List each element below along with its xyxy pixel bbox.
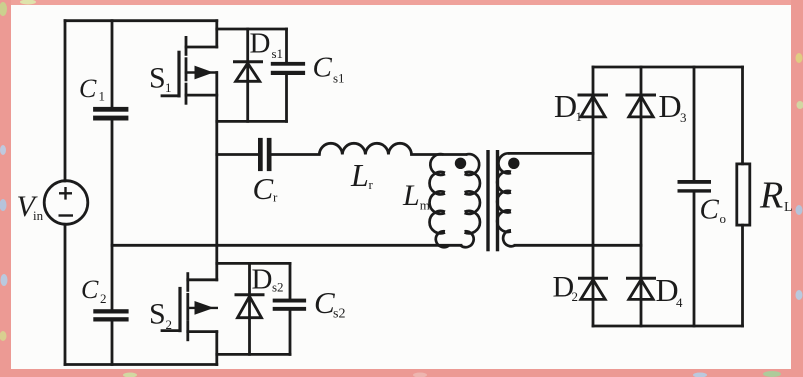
transformer T1 primary winding [461, 154, 480, 247]
svg-text:r: r [369, 177, 374, 192]
svg-text:D: D [659, 88, 682, 124]
svg-text:C: C [700, 194, 720, 226]
svg-text:C: C [313, 51, 333, 83]
diode D3 [626, 95, 657, 117]
svg-text:D: D [252, 264, 273, 296]
svg-text:s1: s1 [272, 46, 284, 61]
wire: bridge left leg (D1 D2) [592, 67, 595, 326]
wire: C1 branch from top rail [111, 21, 114, 107]
label D4 [656, 272, 684, 310]
svg-text:C: C [253, 171, 274, 206]
transistor S2 (MOSFET) [162, 274, 217, 340]
wire: S1 drain to top rail [215, 21, 218, 47]
wire: RL branch upper [741, 67, 744, 164]
wire: Cr to Lr [272, 153, 320, 156]
svg-text:3: 3 [680, 110, 687, 125]
svg-text:D: D [250, 28, 271, 60]
label S1 [149, 61, 172, 95]
label Cr [253, 171, 279, 206]
svg-text:2: 2 [572, 289, 579, 304]
wire: S2 source to bottom rail [215, 332, 218, 365]
svg-text:D: D [554, 88, 577, 124]
wire: snubber1 bottom rail [217, 120, 287, 123]
label Ds1 [250, 28, 284, 61]
wire: Co branch upper [693, 67, 696, 180]
wire: bridge right leg (D3 D4) [640, 67, 643, 326]
capacitor Cr [258, 138, 272, 171]
resistor RL [737, 164, 750, 225]
polarity dot primary [455, 158, 466, 169]
inductor Lr [319, 143, 411, 154]
wire: C2 to bottom rail [111, 321, 114, 364]
wire: Cs2 top lead [289, 263, 292, 298]
transformer T1 secondary winding [497, 153, 515, 246]
wire: secondary top to bridge left leg [510, 152, 594, 155]
diode D1 [578, 95, 609, 117]
wire: RL branch lower [741, 225, 744, 326]
wire: rectifier bottom rail [593, 325, 743, 328]
label D3 [659, 88, 687, 125]
wire: Ds2 branch vertical [248, 263, 251, 354]
svg-text:L: L [784, 200, 793, 215]
wire: Lr to transformer primary [412, 153, 467, 156]
diode D2 [578, 278, 608, 299]
wire: midpoint to Cr [217, 153, 258, 156]
svg-text:s2: s2 [272, 280, 284, 295]
diode Ds2 [235, 295, 265, 318]
wire: Cs1 bottom lead [285, 75, 288, 121]
label RL [759, 175, 793, 217]
label Cs1 [313, 51, 345, 85]
wire: Co branch lower [693, 193, 696, 327]
svg-text:1: 1 [165, 80, 172, 95]
wire: top rail [65, 19, 217, 22]
svg-text:L: L [350, 157, 369, 193]
capacitor C2 [93, 309, 128, 321]
polarity dot secondary [508, 158, 519, 169]
wire: snubber2 bottom rail [217, 353, 290, 356]
wire: bottom rail [65, 363, 217, 366]
wire: rectifier top rail [593, 66, 743, 69]
wire: C1 to C2 divider link [111, 121, 114, 310]
svg-text:o: o [720, 211, 727, 226]
label D2 [553, 271, 579, 305]
capacitor Cs2 [273, 299, 306, 311]
label Cs2 [314, 285, 345, 321]
svg-text:2: 2 [100, 291, 107, 306]
wire: half-bridge midpoint vertical (S1 source to S2 drain) [215, 73, 218, 280]
label Co [700, 194, 727, 226]
capacitor Cs1 [271, 62, 305, 75]
svg-text:4: 4 [676, 295, 683, 310]
source Vin [44, 181, 88, 225]
label Lr [350, 157, 374, 193]
wire: snubber2 top rail [217, 262, 290, 265]
wire: Cs1 top lead [285, 29, 288, 62]
svg-text:s2: s2 [333, 307, 345, 322]
svg-text:1: 1 [99, 89, 106, 104]
svg-text:R: R [759, 175, 783, 217]
label C2 [81, 275, 107, 306]
svg-text:C: C [79, 74, 97, 103]
diode Ds1 [233, 62, 263, 82]
label Lm [402, 179, 430, 212]
diode D4 [626, 278, 656, 299]
capacitor Co [678, 180, 712, 193]
transformer core [486, 150, 499, 251]
wire: Cs2 bottom lead [289, 311, 292, 355]
svg-text:C: C [81, 275, 99, 304]
label Vin [17, 190, 44, 223]
svg-text:S: S [149, 61, 166, 94]
svg-text:r: r [273, 190, 278, 205]
label Ds2 [252, 264, 284, 296]
label S2 [149, 298, 172, 333]
wire: top rail to Vin plus terminal [64, 21, 67, 181]
wire: divider midpoint return rail to transformer bottom [112, 244, 461, 247]
wire: snubber1 top rail [217, 28, 287, 31]
svg-text:in: in [33, 208, 44, 223]
transistor S1 (MOSFET) [162, 37, 217, 103]
svg-text:1: 1 [576, 109, 583, 124]
svg-text:2: 2 [166, 317, 173, 332]
label C1 [79, 74, 105, 104]
svg-text:m: m [420, 197, 430, 212]
svg-text:C: C [314, 285, 335, 320]
wire: Vin minus terminal to bottom rail [64, 224, 67, 364]
wire: secondary bottom to bridge right leg [515, 244, 641, 247]
svg-text:S: S [149, 298, 166, 331]
label D1 [554, 88, 582, 124]
inductor Lm (magnetizing) [430, 154, 449, 247]
capacitor C1 [93, 107, 128, 121]
wire: Ds1 branch vertical [246, 29, 249, 121]
svg-text:L: L [402, 179, 420, 212]
svg-text:s1: s1 [333, 70, 345, 85]
